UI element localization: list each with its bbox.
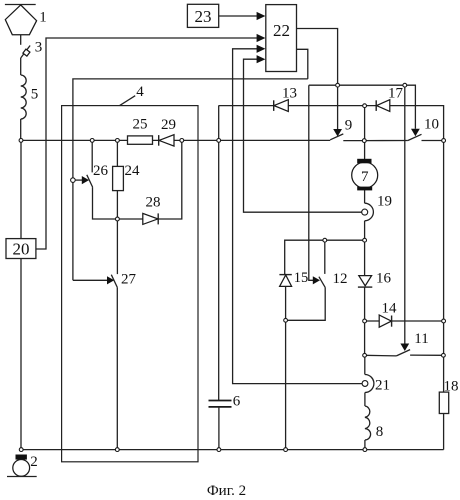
wire switch 26 upper contact (91, 140, 93, 172)
wire terminal 21 upper (364, 355, 366, 374)
svg-text:21: 21 (375, 378, 390, 394)
diode 16 (358, 276, 372, 288)
wire terminal 21 to coil 8 (364, 393, 366, 407)
arrowhead switch 27 control (107, 276, 114, 284)
diode 17 (376, 100, 390, 112)
node bottom rail left (19, 448, 23, 452)
wire terminal 19 tap to box 22 input 4 (244, 59, 362, 212)
wire switch 27 to bottom rail (116, 287, 118, 449)
node rail diode 28 branch (180, 139, 184, 143)
svg-text:6: 6 (233, 394, 241, 410)
wire switch 12 top contact (324, 240, 326, 274)
earth electrode 2 (7, 455, 37, 477)
svg-text:22: 22 (273, 21, 290, 40)
switch 3 (21, 46, 30, 59)
arrowhead switch 11 control (400, 344, 409, 352)
arrowhead input 4 (257, 55, 266, 63)
svg-text:14: 14 (382, 301, 398, 317)
switch 9 blade (330, 134, 343, 140)
wire terminal 19 to node y240 (364, 221, 366, 240)
inductor 5 (21, 75, 27, 119)
resistor 18 (439, 392, 448, 413)
arrowhead input 2 (257, 34, 266, 42)
arrowhead switch 9 control (333, 129, 342, 137)
diode 15 (279, 275, 291, 287)
svg-text:25: 25 (133, 117, 148, 133)
node resistor 24 diode 28 junction (116, 217, 120, 221)
motor 7 (352, 159, 378, 191)
diode 28 (143, 213, 158, 224)
wire box 22 output 2 down (297, 49, 308, 79)
diode 29 (159, 135, 174, 146)
wire switch 10 right contact (422, 140, 444, 142)
resistor 24 (113, 166, 124, 190)
antenna 1 (5, 5, 37, 35)
wire diode line y105.6 (219, 106, 444, 450)
svg-text:26: 26 (93, 163, 109, 179)
main rail wire y140 (21, 139, 330, 141)
node diode 14 right (442, 319, 446, 323)
svg-text:23: 23 (195, 7, 212, 26)
svg-text:9: 9 (345, 118, 353, 134)
resistor 25 (128, 136, 153, 144)
svg-text:17: 17 (388, 86, 404, 102)
switch 10 blade (408, 134, 422, 140)
wire antenna to switch 3 (20, 35, 22, 45)
diode 13 (274, 100, 289, 112)
wire resistor 24 to switch 27 contact (116, 191, 118, 275)
node bottom rail coil 8 (363, 448, 367, 452)
node rail capacitor branch (217, 139, 221, 143)
wire switch 11 right contact (410, 354, 443, 356)
svg-text:5: 5 (31, 87, 39, 103)
svg-text:2: 2 (30, 454, 38, 470)
wire box 20 output to box 22 input 2 (36, 38, 258, 249)
node switch 12 top (323, 238, 327, 242)
wire capacitor branch x219 (218, 106, 220, 401)
svg-text:Фиг. 2: Фиг. 2 (207, 483, 246, 499)
node diode line motor branch (363, 104, 367, 108)
terminal 19 (362, 203, 374, 221)
wire diode 15 to bottom rail (285, 286, 287, 449)
svg-text:3: 3 (35, 40, 43, 56)
inductor 8 (365, 406, 371, 440)
wire control branch down x308.8 to switch 12 (309, 85, 315, 280)
svg-text:12: 12 (333, 271, 348, 287)
svg-text:29: 29 (161, 117, 176, 133)
svg-text:20: 20 (13, 240, 30, 259)
wire switch 3 to coil 5 (20, 58, 22, 75)
switch 26 blade (87, 175, 93, 187)
node rail switch 26 branch (90, 139, 94, 143)
terminal 21 (362, 375, 374, 393)
node rail left (19, 139, 23, 143)
svg-text:13: 13 (282, 86, 297, 102)
wire control branch x404.8 to switch 11 (404, 85, 406, 344)
wire switch 12 bottom to node (286, 287, 326, 320)
wire terminal 21 tap to box 22 input 3 (233, 49, 363, 384)
node diode 15 switch 12 junction (284, 318, 288, 322)
switch 11 blade (396, 350, 410, 356)
wire diode 16 to node y321 (364, 287, 366, 355)
svg-text:24: 24 (125, 163, 141, 179)
wire node y240 to diode 16 (364, 240, 366, 275)
wire switch 11 left rail (365, 354, 397, 357)
svg-text:18: 18 (444, 379, 459, 395)
svg-text:19: 19 (377, 194, 392, 210)
label 4 leader line (120, 96, 136, 106)
node rail motor branch (362, 139, 366, 143)
wire switch 26 to node line y219 (93, 140, 182, 219)
node control bus x337.6 (336, 83, 340, 87)
svg-text:8: 8 (376, 424, 384, 440)
diode 14 (379, 315, 391, 327)
switch 27 blade (111, 275, 117, 288)
svg-text:4: 4 (136, 84, 144, 100)
svg-text:16: 16 (376, 271, 392, 287)
svg-text:1: 1 (39, 10, 47, 26)
arrowhead input 1 (257, 12, 266, 20)
capacitor 6 (209, 401, 232, 407)
wire switch 9 right contact (343, 140, 364, 142)
arrowhead switch 12 control (313, 276, 320, 284)
wire motor vertical (364, 106, 366, 204)
wire box 23 to box 22 input 1 (219, 15, 258, 17)
node control bus x404.8 (403, 83, 407, 87)
node bottom rail diode 15 (284, 448, 288, 452)
arrowhead switch 26 (82, 176, 89, 184)
wire control bus y85 (309, 85, 416, 129)
wire branch y240 to diode 15 (285, 240, 365, 274)
node rail resistor 24 branch (116, 139, 120, 143)
svg-text:11: 11 (414, 331, 428, 347)
node switch 11 left (363, 353, 367, 357)
box 23 (187, 4, 218, 27)
wire control branch to switch 27 arrow (73, 279, 109, 281)
box 20 (6, 239, 36, 259)
svg-text:27: 27 (121, 272, 137, 288)
switch 12 blade (319, 277, 325, 288)
wire resistor 24 branch upper (116, 140, 118, 166)
wire coil 8 to bottom rail (364, 440, 366, 450)
svg-text:28: 28 (146, 195, 161, 211)
node rail right vertical (442, 139, 446, 143)
node y240 motor branch (363, 238, 367, 242)
wire left vertical rail node to box 20 and to bottom (20, 140, 22, 449)
svg-text:15: 15 (294, 270, 309, 286)
node switch 11 right (442, 353, 446, 357)
bottom rail wire y449.6 (21, 449, 443, 451)
wire switch 26 arrow line (75, 179, 83, 181)
wire output 2 left along y79 (73, 79, 308, 280)
wire diode 14 branch (365, 320, 444, 322)
node bottom rail switch 27 (115, 448, 119, 452)
arrowhead input 3 (257, 45, 266, 53)
svg-text:10: 10 (424, 117, 439, 133)
arrowhead switch 10 control (411, 129, 420, 137)
wire motor branch rail to switch 10 (364, 140, 408, 142)
box 4 (62, 106, 198, 462)
wire coil 5 to rail node (20, 119, 22, 140)
switch 26 contact circle (71, 178, 76, 183)
node bottom rail capacitor (217, 448, 221, 452)
wire capacitor to bottom rail (218, 407, 220, 450)
svg-text:7: 7 (361, 169, 369, 185)
wire box 22 output 1 to control node (297, 29, 338, 130)
node diode 14 left (363, 319, 367, 323)
box 22 (266, 5, 297, 72)
